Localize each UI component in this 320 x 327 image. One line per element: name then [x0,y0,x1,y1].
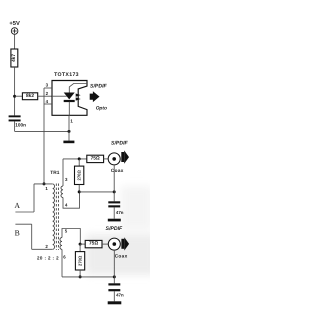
svg-text:4k7: 4k7 [11,54,17,62]
capacitor C3 47n [108,283,124,297]
wire C1 to rail [14,121,16,131]
ground wire channel 1 [79,191,114,193]
resistor R4 270ohm [75,159,84,192]
opto S/PDIF output arrow [90,83,108,111]
svg-text:47n: 47n [116,293,124,298]
node B [15,224,32,249]
wire node to R2 [15,95,23,97]
resistor R1 4k7 [11,49,18,67]
svg-text:S/PDIF: S/PDIF [106,226,124,232]
output arrow channel 2 [121,237,129,250]
svg-text:47n: 47n [116,210,124,215]
node A [14,184,34,212]
svg-text:S/PDIF: S/PDIF [111,141,129,147]
wire R2 to pin2 [38,95,52,97]
svg-text:270Ω: 270Ω [77,169,82,180]
svg-text:B: B [15,229,20,238]
wire connector 2 shield down [113,250,115,283]
svg-text:Opto: Opto [96,106,107,112]
TR1 primary top wire [34,183,53,185]
resistor R5 75ohm [85,240,102,247]
svg-text:S/PDIF: S/PDIF [90,83,108,89]
svg-text:100n: 100n [15,123,26,128]
TR1 secondary 2 winding [60,229,80,277]
wire R5 to connector 2 [102,243,108,245]
junction R4 top [78,157,81,160]
junction R4 bottom [78,190,81,193]
pin 4 [44,99,52,104]
pin 3 [44,83,52,88]
ground rail wire [15,130,69,132]
ground below C2 [108,207,121,221]
node junction [13,95,16,98]
wire sec1 to R3 [63,158,87,160]
resistor R6 270ohm [75,244,84,277]
junction at TR1 primary top [43,182,46,185]
svg-text:75Ω: 75Ω [89,241,98,247]
wire +5V to R1 [14,34,16,49]
TR1 secondary 1 winding [61,159,80,208]
resistor R3 75ohm [87,155,104,162]
svg-text:A: A [14,201,20,210]
svg-text:+5V: +5V [9,21,20,27]
junction channel 2 top [79,243,82,246]
op IC U1 outline [52,81,87,116]
svg-text:8k2: 8k2 [26,93,34,99]
TR1 primary winding [53,184,55,249]
connector K1 coax [108,153,120,165]
wire connector 1 shield down [113,165,115,202]
junction R6 bottom [79,275,82,278]
ground [63,131,74,143]
resistor R2 8k2 [22,93,37,100]
junction connector 2 shield [113,275,116,278]
wire R3 to connector 1 [104,158,109,160]
TR1 primary bottom wire [32,248,53,250]
svg-text:TOTX173: TOTX173 [54,72,79,78]
wire pins 3/4 down to TR1 [43,88,45,184]
svg-text:20 : 2 : 2: 20 : 2 : 2 [37,256,59,261]
capacitor C1 100n [9,115,27,127]
svg-text:270Ω: 270Ω [78,255,83,266]
ground wire channel 2 [62,276,114,278]
pin 1 [69,115,73,131]
connector K2 coax [108,238,120,250]
TR1 core [56,184,58,251]
junction connector 1 shield [113,190,116,193]
junction pin1/ground [68,130,71,133]
svg-text:Coax: Coax [111,168,124,173]
supply +5V [9,21,20,35]
LED D1 inside U1 [52,84,87,116]
svg-text:75Ω: 75Ω [91,156,100,162]
wire R1 to node [14,67,16,115]
capacitor C2 47n [108,201,123,215]
ground below C3 [108,291,122,304]
svg-text:TR1: TR1 [50,170,59,176]
wire to R5 [80,243,85,245]
output arrow channel 1 [121,150,129,163]
svg-text:Coax: Coax [115,254,128,259]
